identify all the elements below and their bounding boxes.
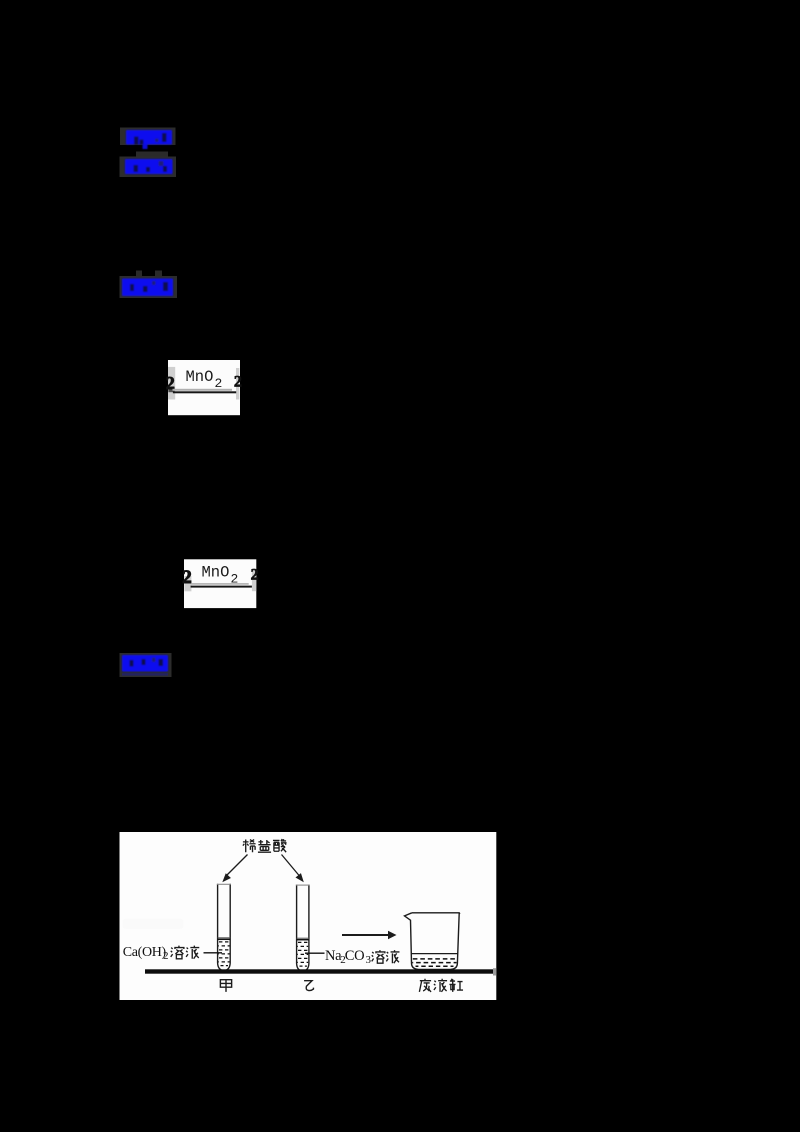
eq1 gray line	[173, 389, 233, 391]
highlight box of label 3	[120, 276, 178, 298]
svg-text:2: 2	[182, 567, 192, 588]
tube 甲 liquid	[218, 937, 231, 939]
test tube 甲	[218, 884, 231, 971]
eq2 right gray strip	[252, 570, 256, 591]
gray ticks above label 3	[136, 271, 142, 277]
svg-text:CO: CO	[345, 948, 365, 964]
pointer line to Na2CO3 label	[305, 952, 325, 954]
pointer line from Ca(OH)2 label	[204, 952, 223, 954]
highlight box of label 4	[120, 653, 172, 677]
gray bridge above label 2	[136, 152, 168, 160]
label 乙	[304, 981, 313, 991]
equation image 2 white box	[184, 559, 256, 608]
tube 乙 liquid	[297, 937, 309, 939]
table line gray cap	[493, 968, 496, 975]
highlight box of label 2	[120, 157, 177, 178]
beaker 废液缸	[405, 913, 460, 970]
blue label 2 【分析】	[125, 159, 173, 174]
dilute HCl label 稀盐酸	[243, 839, 287, 852]
svg-text:2: 2	[234, 373, 242, 390]
table line	[145, 969, 493, 973]
svg-text:2: 2	[251, 567, 259, 584]
svg-text:3: 3	[366, 954, 372, 966]
label 4 underline	[122, 673, 168, 675]
diagram watermark	[123, 919, 184, 929]
highlight box of label 1	[120, 128, 176, 146]
equation image 1 white box	[168, 360, 240, 415]
eq1 black line	[173, 391, 236, 393]
eq1 right gray strip	[236, 368, 239, 400]
horizontal arrow to beaker	[342, 934, 389, 936]
arrow to tube 乙	[282, 855, 300, 877]
eq2 black line	[191, 586, 252, 588]
label 甲	[220, 980, 231, 992]
blue label 4 【点评】	[122, 655, 168, 672]
eq1 left gray strip	[168, 367, 175, 400]
svg-text:MnO: MnO	[202, 564, 230, 582]
eq2 left gray strip	[184, 576, 191, 591]
diagram white box	[120, 832, 497, 1000]
eq2 gray line	[191, 583, 249, 585]
arrow to tube 甲	[226, 855, 248, 877]
svg-text:2: 2	[163, 950, 169, 962]
test tube 乙	[297, 885, 309, 971]
beaker liquid	[411, 953, 457, 955]
blue label 1 【考点】	[126, 130, 172, 149]
blue label 3 【解答】	[122, 279, 173, 297]
svg-text:MnO: MnO	[186, 368, 214, 386]
svg-text:Ca(OH): Ca(OH)	[123, 945, 167, 960]
svg-text:2: 2	[215, 376, 223, 391]
label 废液缸	[419, 979, 463, 992]
eq1 dark block under left 2	[168, 387, 174, 392]
